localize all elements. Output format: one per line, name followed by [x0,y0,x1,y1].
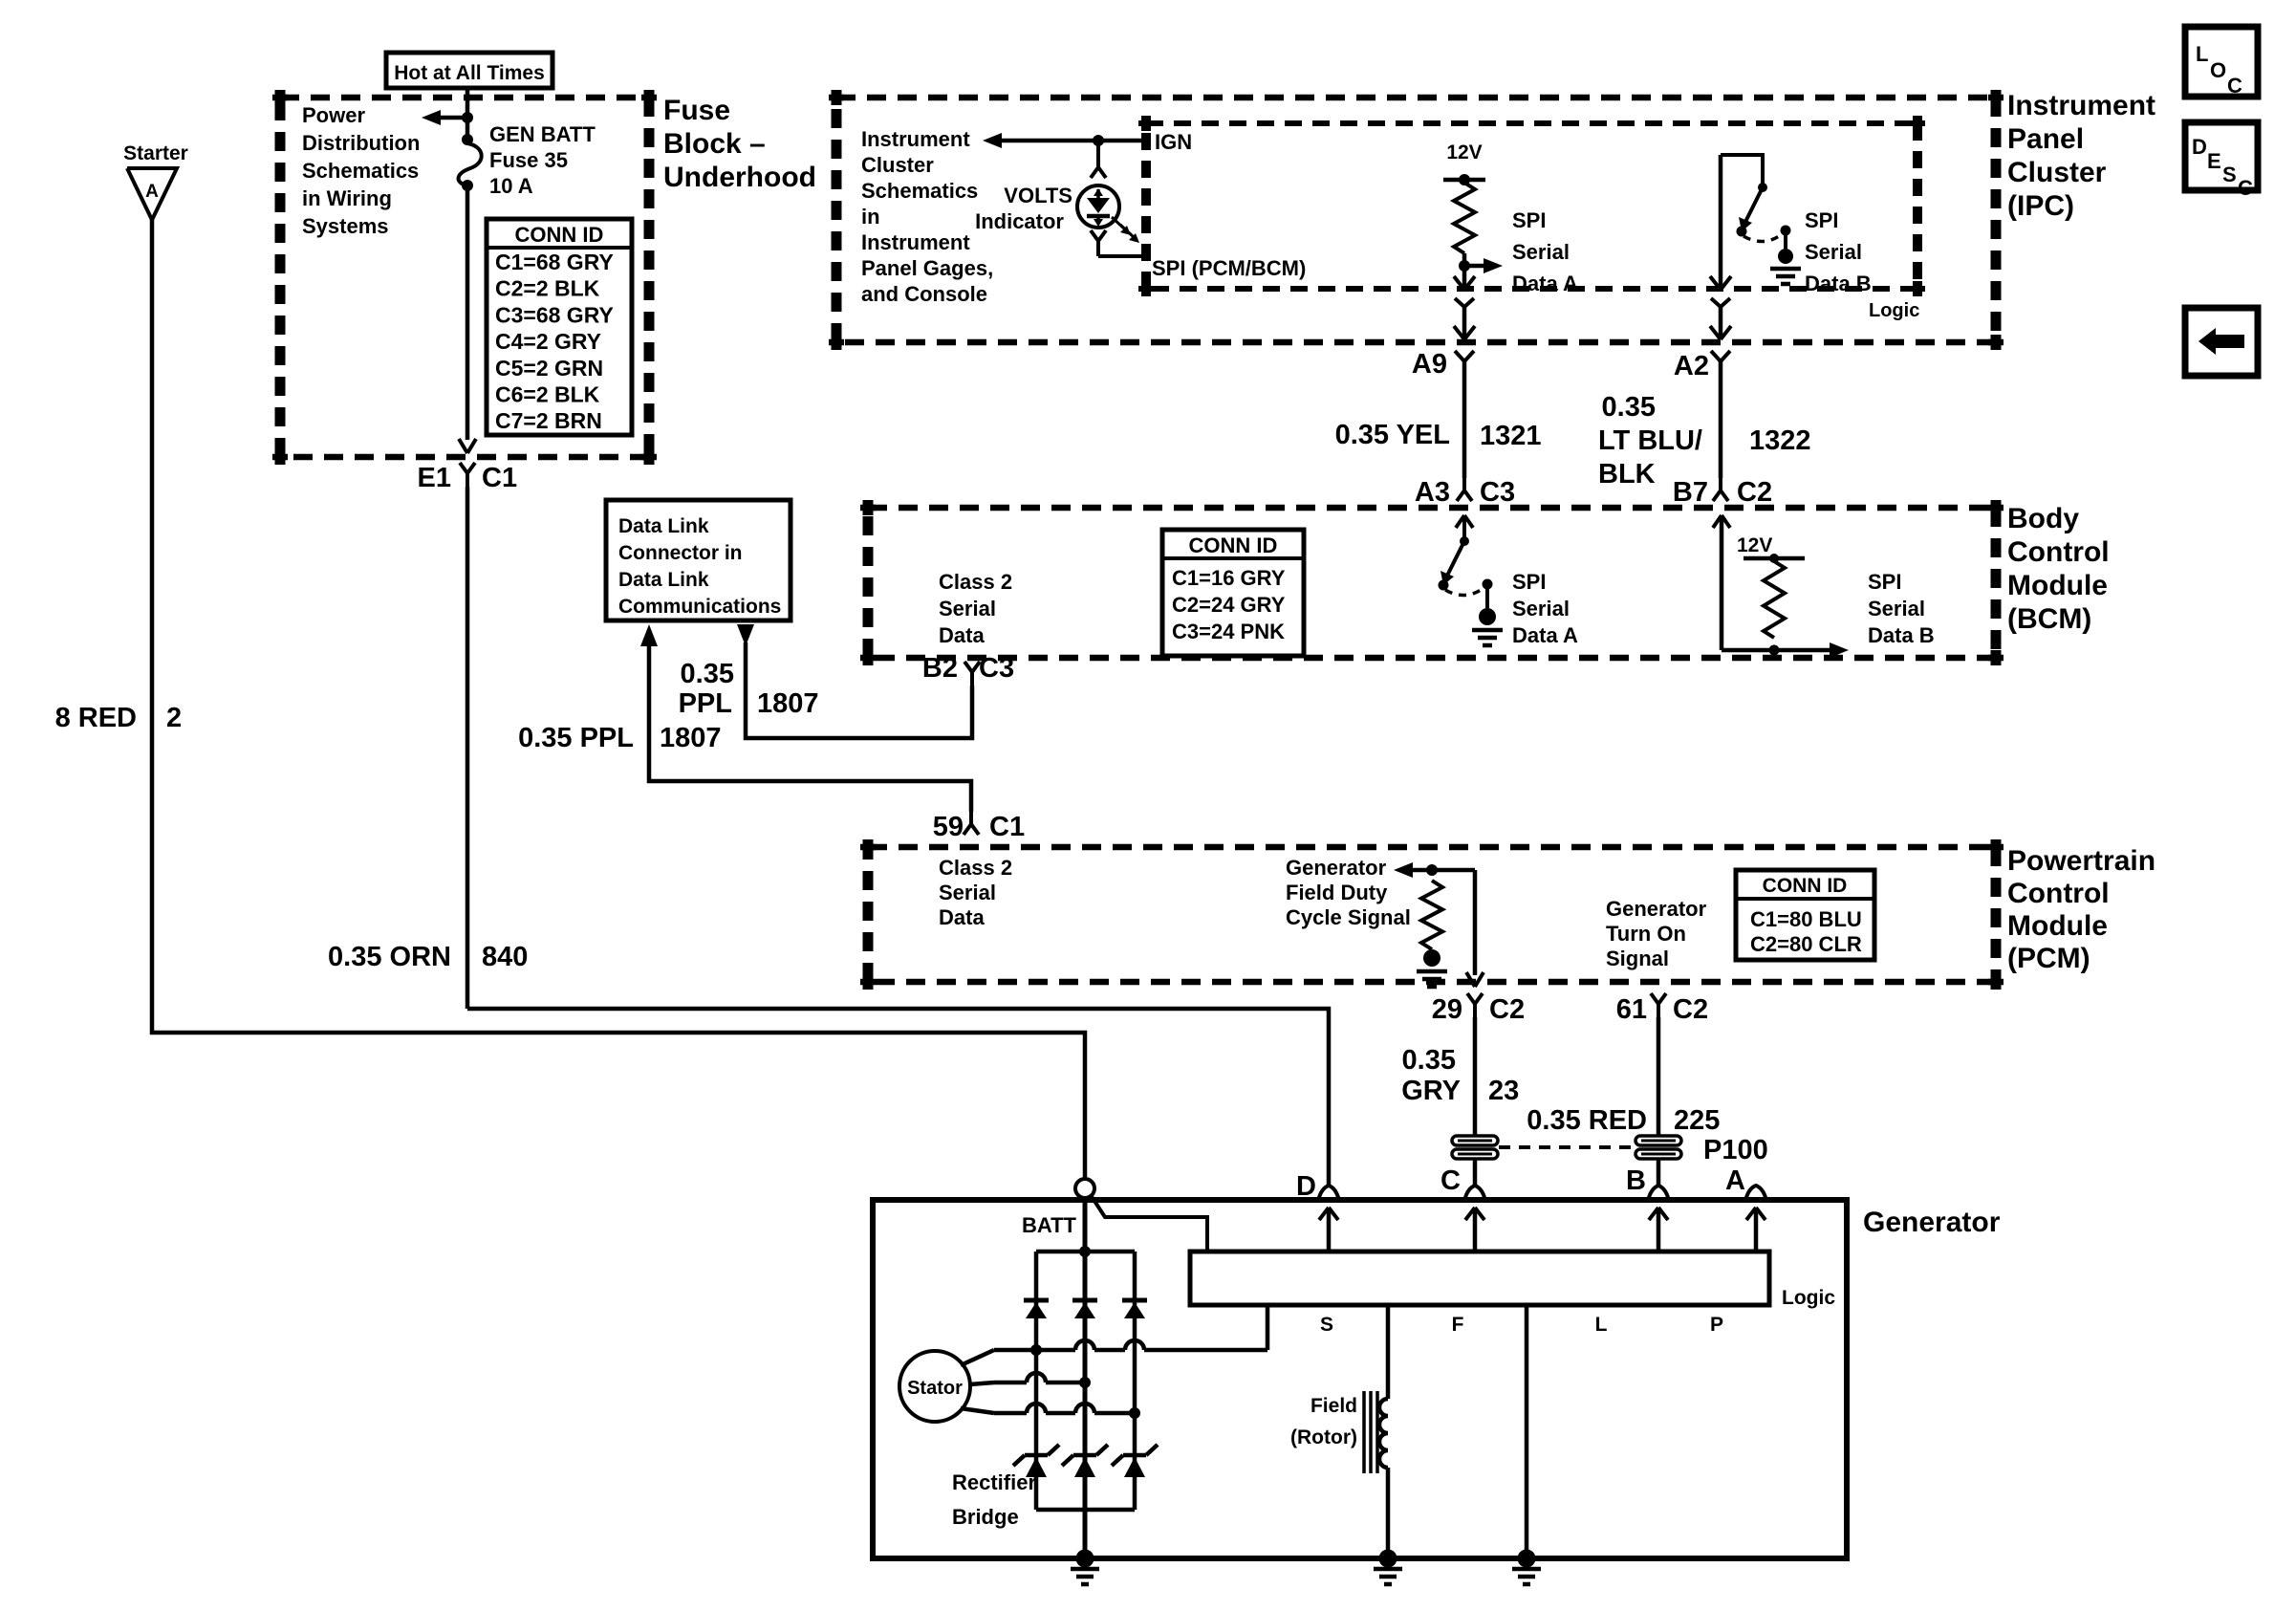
svg-text:Starter: Starter [123,142,188,164]
svg-text:B2: B2 [922,653,958,684]
svg-text:SPI: SPI [1512,570,1546,594]
svg-text:GRY: GRY [1401,1076,1461,1106]
svg-text:0.35 RED: 0.35 RED [1527,1105,1647,1136]
svg-text:B: B [1626,1165,1646,1196]
svg-text:C: C [2227,74,2242,98]
svg-text:C6=2 BLK: C6=2 BLK [495,382,600,407]
svg-text:PPL: PPL [679,688,732,719]
svg-text:A: A [1725,1165,1745,1196]
svg-text:0.35: 0.35 [1402,1045,1456,1076]
svg-text:Field: Field [1310,1395,1357,1417]
svg-text:A2: A2 [1674,351,1709,381]
svg-text:Logic: Logic [1782,1287,1835,1309]
svg-text:Module: Module [2007,570,2108,601]
svg-text:0.35: 0.35 [1602,392,1656,423]
svg-text:Generator: Generator [1863,1207,2001,1238]
svg-text:SPI: SPI [1805,208,1838,232]
svg-text:Rectifier: Rectifier [952,1470,1036,1494]
svg-text:Block –: Block – [663,128,766,160]
svg-text:SPI (PCM/BCM): SPI (PCM/BCM) [1152,256,1306,280]
svg-text:and Console: and Console [861,282,987,306]
svg-text:D: D [2192,135,2207,159]
svg-text:(PCM): (PCM) [2007,943,2090,974]
svg-text:840: 840 [482,942,528,972]
svg-text:(Rotor): (Rotor) [1290,1426,1357,1448]
svg-text:C1=80 BLU: C1=80 BLU [1750,907,1862,931]
svg-text:Data Link: Data Link [618,569,709,591]
svg-text:Body: Body [2007,503,2079,534]
svg-text:A3: A3 [1415,477,1450,508]
svg-text:(IPC): (IPC) [2007,190,2074,222]
svg-text:GEN BATT: GEN BATT [489,122,596,146]
svg-text:C7=2 BRN: C7=2 BRN [495,408,602,433]
svg-text:C: C [2238,176,2253,200]
svg-text:(BCM): (BCM) [2007,603,2091,635]
svg-text:Control: Control [2007,536,2110,568]
svg-text:Cluster: Cluster [2007,157,2107,188]
svg-text:61: 61 [1616,994,1647,1025]
svg-text:L: L [1595,1314,1608,1336]
svg-text:0.35 YEL: 0.35 YEL [1335,420,1450,450]
svg-text:Hot at All Times: Hot at All Times [394,62,545,84]
svg-text:O: O [2210,58,2226,82]
svg-text:C4=2 GRY: C4=2 GRY [495,329,601,354]
svg-text:Fuse 35: Fuse 35 [489,148,568,172]
svg-text:Instrument: Instrument [2007,90,2155,121]
svg-text:CONN ID: CONN ID [1763,875,1848,897]
svg-text:225: 225 [1674,1105,1720,1136]
svg-text:C5=2 GRN: C5=2 GRN [495,356,603,381]
svg-text:C2=2 BLK: C2=2 BLK [495,276,600,301]
svg-text:BATT: BATT [1022,1213,1077,1237]
svg-text:Instrument: Instrument [861,230,970,254]
svg-text:Generator: Generator [1606,897,1707,921]
svg-text:0.35 PPL: 0.35 PPL [518,723,634,753]
svg-text:C1: C1 [989,812,1025,842]
svg-text:C3: C3 [1480,477,1515,508]
svg-text:Indicator: Indicator [975,209,1064,233]
svg-text:C3=24 PNK: C3=24 PNK [1172,620,1285,643]
svg-text:C1: C1 [482,463,517,493]
svg-text:C3=68 GRY: C3=68 GRY [495,302,614,327]
svg-text:in: in [861,205,880,229]
svg-text:in Wiring: in Wiring [302,186,392,210]
svg-text:S: S [2222,163,2237,186]
svg-text:A9: A9 [1412,349,1447,380]
svg-text:1807: 1807 [660,723,722,753]
svg-text:Panel: Panel [2007,123,2084,155]
svg-text:VOLTS: VOLTS [1004,184,1072,207]
svg-text:Serial: Serial [1512,597,1570,620]
svg-text:1807: 1807 [757,688,819,719]
svg-text:CONN ID: CONN ID [515,223,604,247]
svg-text:Generator: Generator [1286,856,1387,880]
svg-text:CONN ID: CONN ID [1189,533,1278,557]
svg-text:SPI: SPI [1512,208,1546,232]
svg-text:C: C [1440,1165,1461,1196]
svg-text:0.35: 0.35 [681,659,734,689]
svg-text:Data B: Data B [1805,272,1872,295]
svg-text:BLK: BLK [1598,459,1656,490]
svg-text:C1=68 GRY: C1=68 GRY [495,250,614,274]
svg-text:1321: 1321 [1480,421,1542,451]
svg-text:Stator: Stator [907,1378,963,1399]
svg-text:Bridge: Bridge [952,1505,1019,1529]
svg-text:Schematics: Schematics [302,159,419,183]
svg-text:D: D [1296,1171,1316,1202]
svg-text:12V: 12V [1446,142,1482,163]
svg-text:S: S [1320,1314,1333,1336]
svg-text:2: 2 [166,703,182,733]
svg-text:E1: E1 [418,463,451,493]
svg-text:A: A [145,182,159,202]
svg-text:Cluster: Cluster [861,153,934,177]
svg-text:F: F [1452,1314,1464,1336]
svg-text:Field Duty: Field Duty [1286,881,1388,904]
svg-text:59: 59 [933,812,964,842]
svg-text:Cycle Signal: Cycle Signal [1286,905,1411,929]
svg-text:Powertrain: Powertrain [2007,845,2155,877]
svg-text:Serial: Serial [1512,240,1570,264]
svg-text:Turn On: Turn On [1606,922,1686,946]
svg-text:Data A: Data A [1512,272,1578,295]
svg-text:Serial: Serial [939,597,996,620]
svg-text:C2=24 GRY: C2=24 GRY [1172,593,1286,617]
svg-text:Class 2: Class 2 [939,856,1012,880]
svg-text:Logic: Logic [1869,300,1919,321]
svg-text:Distribution: Distribution [302,131,420,155]
svg-text:29: 29 [1432,994,1462,1025]
svg-text:Data: Data [939,623,985,647]
svg-text:Fuse: Fuse [663,95,730,126]
svg-text:Instrument: Instrument [861,127,970,151]
svg-text:E: E [2207,149,2221,173]
svg-text:Power: Power [302,103,365,127]
svg-text:0.35 ORN: 0.35 ORN [328,942,451,972]
svg-text:Communications: Communications [618,596,781,618]
svg-text:Serial: Serial [1868,597,1925,620]
svg-text:P: P [1710,1314,1723,1336]
svg-text:L: L [2196,42,2208,66]
svg-text:12V: 12V [1737,534,1772,556]
svg-text:IGN: IGN [1155,130,1192,154]
svg-text:Serial: Serial [1805,240,1862,264]
svg-text:Data: Data [939,905,985,929]
svg-text:Class 2: Class 2 [939,570,1012,594]
svg-text:C3: C3 [979,653,1014,684]
svg-text:C2: C2 [1737,477,1772,508]
svg-text:Connector in: Connector in [618,542,743,564]
svg-text:Underhood: Underhood [663,162,816,193]
svg-text:LT BLU/: LT BLU/ [1598,425,1702,456]
svg-text:Signal: Signal [1606,947,1669,970]
svg-text:Serial: Serial [939,881,996,904]
svg-text:Control: Control [2007,878,2110,909]
svg-text:Data A: Data A [1512,623,1578,647]
svg-text:Module: Module [2007,910,2108,942]
svg-text:1322: 1322 [1749,425,1811,456]
svg-text:C1=16 GRY: C1=16 GRY [1172,566,1286,590]
svg-text:C2=80 CLR: C2=80 CLR [1750,932,1862,956]
svg-text:Systems: Systems [302,214,389,238]
svg-text:P100: P100 [1703,1135,1768,1165]
svg-text:23: 23 [1488,1076,1519,1106]
svg-text:Schematics: Schematics [861,179,978,203]
svg-text:B7: B7 [1673,477,1708,508]
svg-text:8 RED: 8 RED [55,703,137,733]
svg-text:Data Link: Data Link [618,515,709,537]
svg-text:10 A: 10 A [489,174,533,198]
svg-text:C2: C2 [1489,994,1525,1025]
svg-text:SPI: SPI [1868,570,1901,594]
svg-text:Panel Gages,: Panel Gages, [861,256,993,280]
svg-text:Data B: Data B [1868,623,1935,647]
svg-text:C2: C2 [1673,994,1708,1025]
